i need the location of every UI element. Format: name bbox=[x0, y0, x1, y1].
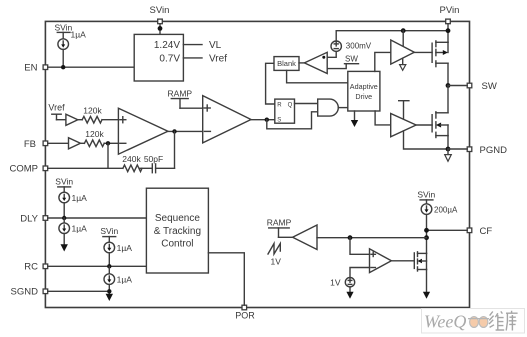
junction DLY node bbox=[62, 216, 66, 220]
wire R3 to C1 bbox=[140, 167, 152, 169]
svg-text:S: S bbox=[277, 118, 281, 124]
ground arrow under U8 bbox=[351, 111, 358, 127]
wire FB pin to buffer A2 bbox=[48, 142, 69, 144]
voltage source V1 300mV bbox=[331, 41, 372, 51]
wire U8 top to driver A3 input bbox=[375, 52, 391, 71]
wire SW node down to Q2 drain bbox=[447, 86, 449, 113]
wire output node down to compensation bbox=[174, 131, 176, 168]
current source I5 1uA (RC pull-down) bbox=[104, 266, 132, 301]
resistor R1 120k bbox=[82, 105, 102, 123]
svg-text:RAMP: RAMP bbox=[168, 89, 193, 99]
wire R1 to error amp + bbox=[102, 119, 118, 121]
wire A1 to R1 bbox=[78, 119, 82, 121]
svg-text:1.24V: 1.24V bbox=[154, 40, 180, 51]
driver A4 (low side) bbox=[391, 114, 416, 137]
wire V2 to U10 - input bbox=[350, 268, 370, 278]
transistor Q2 (low-side NMOS) bbox=[432, 112, 448, 138]
net SW rail symbol bbox=[327, 55, 358, 69]
wire tap down to U10 + input bbox=[350, 238, 370, 255]
wire EN pin to VL/Vref block bbox=[48, 66, 135, 68]
wire driver A3 supply stem bbox=[402, 31, 404, 46]
svg-text:Adaptive: Adaptive bbox=[350, 82, 378, 91]
svg-text:CF: CF bbox=[480, 226, 493, 237]
svg-text:PVin: PVin bbox=[440, 5, 460, 16]
svg-text:R: R bbox=[277, 103, 282, 109]
PWM comparator U3 bbox=[203, 96, 251, 143]
pin POR (bottom) bbox=[235, 305, 255, 320]
Blank box U7 bbox=[274, 57, 299, 71]
svg-text:COMP: COMP bbox=[10, 164, 39, 175]
junction ramp comparator tap bbox=[348, 235, 353, 240]
svg-text:Vref: Vref bbox=[209, 54, 227, 65]
wire error amp output to PWM comparator - bbox=[168, 130, 203, 132]
comparator U10 bbox=[370, 249, 392, 273]
wire V1 minus to U6 upper input bbox=[327, 51, 336, 57]
wire COMP pin to compensation network bbox=[48, 167, 123, 169]
svg-text:0.7V: 0.7V bbox=[159, 54, 180, 65]
wire PVin rail bbox=[336, 30, 448, 32]
wire SGND pin to sink node bbox=[48, 290, 110, 292]
blank comparator U6 bbox=[304, 52, 327, 73]
pin FB bbox=[24, 139, 48, 150]
svg-text:WeeQ: WeeQ bbox=[424, 312, 466, 332]
svg-text:& Tracking: & Tracking bbox=[154, 226, 201, 237]
sawtooth waveform glyph bbox=[268, 244, 280, 255]
svg-text:Q: Q bbox=[288, 103, 293, 109]
net RAMP rail symbol (generator) bbox=[267, 218, 293, 238]
junction error amp output node bbox=[172, 129, 176, 133]
wire V1 plus to PVin rail bbox=[335, 31, 337, 41]
junction SGND node bbox=[107, 289, 111, 293]
regulator block U1 (1.24V / 0.7V) bbox=[134, 34, 183, 81]
current source I3 1uA (DLY pull-down) bbox=[59, 218, 87, 252]
junction SVin node bbox=[158, 26, 163, 31]
net Vref rail symbol bbox=[48, 103, 65, 120]
wire C1 to output node bbox=[156, 167, 175, 169]
wire latch Q to AND gate upper input bbox=[295, 103, 318, 105]
svg-text:Sequence: Sequence bbox=[155, 213, 200, 224]
junction driver supply tap bbox=[401, 28, 406, 33]
svg-text:RAMP: RAMP bbox=[267, 218, 292, 228]
wire PGND node to PGND pin bbox=[448, 148, 467, 150]
svg-text:EN: EN bbox=[24, 63, 37, 74]
wire A3 output to Q1 gate bbox=[414, 51, 432, 53]
svg-text:1µA: 1µA bbox=[72, 193, 88, 203]
wire Blank bottom to Adaptive Drive bbox=[287, 70, 348, 82]
svg-text:SW: SW bbox=[482, 81, 497, 92]
svg-text:SGND: SGND bbox=[11, 287, 39, 298]
junction FB summing node bbox=[106, 141, 110, 145]
svg-text:Vref: Vref bbox=[48, 103, 65, 113]
svg-text:SVin: SVin bbox=[417, 190, 435, 200]
pin CF bbox=[467, 226, 492, 237]
svg-text:300mV: 300mV bbox=[346, 42, 372, 51]
driver A3 (high side) bbox=[391, 40, 415, 64]
junction ramp tap node bbox=[424, 235, 429, 240]
svg-text:Drive: Drive bbox=[355, 92, 372, 101]
junction CF node bbox=[424, 228, 429, 233]
svg-text:PGND: PGND bbox=[480, 145, 508, 156]
wire FB node down to COMP net bbox=[107, 143, 109, 168]
Adaptive Drive block U8 bbox=[348, 71, 380, 111]
wire A4 ground to PGND bbox=[404, 131, 449, 149]
buffer A2 (FB) bbox=[69, 138, 81, 149]
svg-text:1µA: 1µA bbox=[71, 30, 87, 40]
pin SGND bbox=[11, 287, 48, 298]
junction U3 output node bbox=[265, 118, 269, 122]
wire U3 output to latch S input bbox=[251, 119, 275, 121]
pin EN bbox=[24, 63, 47, 74]
svg-text:POR: POR bbox=[235, 311, 255, 321]
ground arrow under Q3 source bbox=[423, 270, 430, 299]
svg-text:SVin: SVin bbox=[100, 226, 118, 236]
svg-text:200µA: 200µA bbox=[434, 205, 458, 214]
watermark CJK glyphs bbox=[489, 311, 518, 331]
svg-text:Control: Control bbox=[161, 239, 193, 250]
wire U10 output to Q3 gate bbox=[391, 260, 414, 262]
svg-text:1V: 1V bbox=[271, 256, 282, 266]
pin DLY bbox=[20, 214, 47, 225]
svg-text:RC: RC bbox=[24, 262, 38, 273]
current source I4 SVin 1uA (RC pull-up) bbox=[100, 226, 132, 266]
svg-text:240k: 240k bbox=[122, 154, 141, 164]
pin RC bbox=[24, 262, 47, 273]
wire PVin pin down bbox=[447, 24, 449, 43]
svg-text:FB: FB bbox=[24, 139, 36, 150]
junction RC node bbox=[107, 264, 111, 268]
svg-text:VL: VL bbox=[209, 40, 222, 51]
wire Vref output bbox=[183, 57, 202, 59]
voltage source V2 1V bbox=[330, 277, 355, 287]
junction PVin rail at FET bbox=[446, 28, 451, 33]
svg-text:120k: 120k bbox=[85, 129, 104, 139]
wire U6 output to Blank box bbox=[299, 62, 304, 64]
wire Q2 source down to PGND node bbox=[447, 136, 449, 149]
svg-text:1µA: 1µA bbox=[117, 243, 133, 253]
wire Q1 source down to SW node bbox=[447, 63, 449, 85]
wire RC pin to sequence block bbox=[48, 265, 147, 267]
wire latch R input from Blank bbox=[266, 63, 275, 104]
AND gate U5 bbox=[318, 99, 339, 116]
svg-text:50pF: 50pF bbox=[144, 154, 163, 164]
ground arrow under A3 (open) bbox=[400, 58, 406, 70]
svg-text:SVin: SVin bbox=[55, 177, 73, 187]
svg-text:1µA: 1µA bbox=[72, 224, 88, 234]
ground arrow under V2 bbox=[346, 287, 353, 299]
current source I1 SVin 1uA (EN pull-up) bbox=[54, 22, 86, 67]
wire A4 output to Q2 gate bbox=[416, 124, 432, 126]
svg-text:1V: 1V bbox=[330, 277, 341, 287]
junction SW node bbox=[446, 83, 451, 88]
pin SVin (top) bbox=[150, 5, 170, 24]
current source I6 SVin 200uA (CF charge) bbox=[417, 190, 458, 254]
svg-text:Blank: Blank bbox=[277, 59, 296, 68]
transistor Q1 (high-side PMOS) bbox=[432, 41, 448, 67]
wire U3 output branch to AND gate lower input bbox=[267, 112, 318, 129]
net RAMP rail symbol (PWM) bbox=[168, 89, 203, 109]
wire VL output bbox=[183, 44, 202, 46]
wire U9 output to POR pin bbox=[208, 253, 244, 305]
capacitor C1 50pF bbox=[144, 154, 163, 173]
pin SW bbox=[467, 81, 497, 92]
wire U8 bottom to driver A4 input bbox=[375, 111, 391, 125]
svg-text:1µA: 1µA bbox=[117, 275, 133, 285]
svg-text:DLY: DLY bbox=[20, 214, 38, 225]
pin COMP bbox=[10, 164, 48, 175]
wire R2 to error amp - input bbox=[104, 142, 118, 144]
pin PVin (top) bbox=[440, 5, 460, 24]
junction EN node bbox=[61, 65, 65, 69]
pin PGND bbox=[467, 145, 507, 156]
wire AND output to Adaptive Drive bbox=[338, 107, 348, 109]
resistor R2 120k bbox=[84, 129, 104, 147]
wire A2 to R2 bbox=[80, 142, 84, 144]
resistor R3 240k bbox=[122, 154, 142, 172]
ground arrow under PGND node (open) bbox=[445, 149, 452, 161]
wire CF node to CF pin bbox=[427, 229, 468, 231]
IC outline border bbox=[45, 21, 469, 307]
wire SW node to SW pin bbox=[448, 85, 467, 87]
junction PGND node bbox=[446, 147, 451, 152]
buffer A5 (ramp, points left) bbox=[293, 225, 317, 250]
svg-text:SVin: SVin bbox=[150, 5, 170, 16]
wire ramp line from CF node to A5 bbox=[317, 237, 427, 239]
wire SVin pin into regulator block bbox=[159, 24, 161, 35]
svg-text:SW: SW bbox=[345, 55, 358, 64]
svg-text:120k: 120k bbox=[83, 105, 102, 115]
error amp U2 bbox=[118, 108, 167, 154]
RS latch U4 bbox=[275, 99, 295, 124]
watermark box bbox=[422, 309, 525, 334]
wire DLY pin to sequence block bbox=[48, 217, 147, 219]
Sequence and Tracking Control block U9 bbox=[146, 188, 208, 273]
current source I2 SVin 1uA (DLY pull-up) bbox=[55, 177, 87, 219]
buffer A1 (Vref) bbox=[66, 114, 78, 125]
transistor Q3 (CF discharge NMOS) bbox=[414, 252, 426, 271]
net VL rail symbol above driver A4 bbox=[399, 101, 409, 119]
